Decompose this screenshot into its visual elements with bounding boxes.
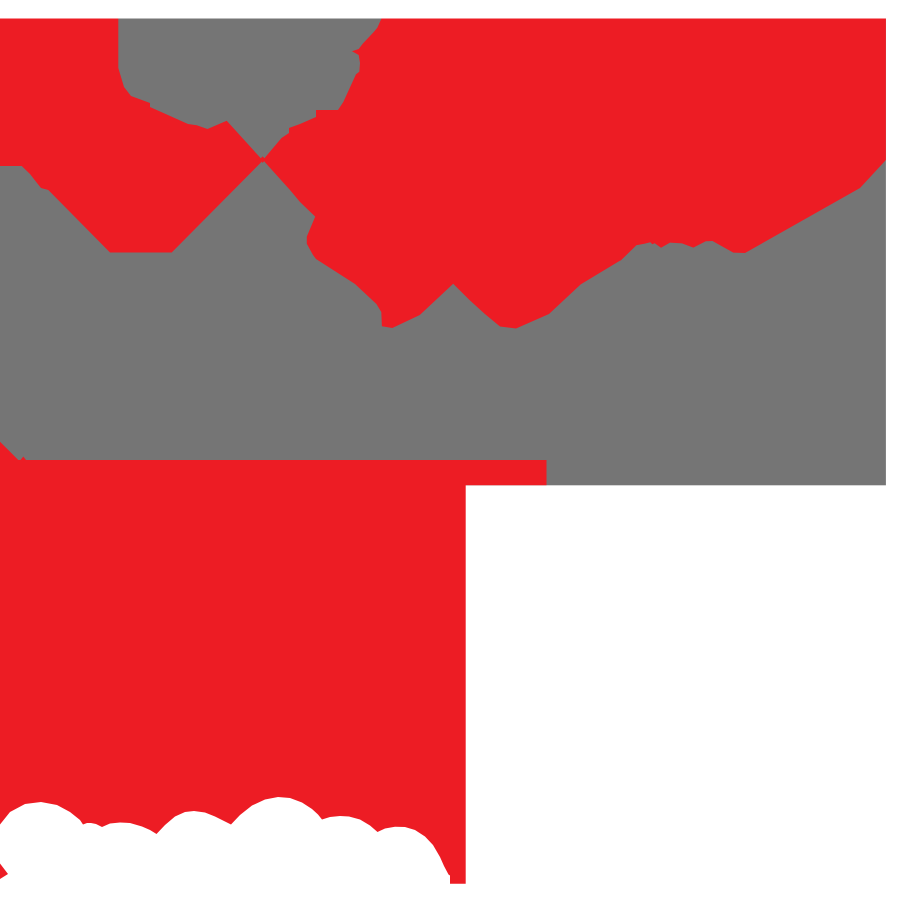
red bottom-left square with scalloped (letter-top) bottom edge — [0, 442, 547, 884]
red band 1 (top-left block + diagonal ribbon to crossing) — [0, 19, 262, 253]
tiny red spike on square top edge at left — [21, 457, 27, 461]
red right mass (large top-right block with jagged letter-like bottom) — [264, 19, 886, 329]
gray main field (single block; red shapes drawn on top) — [0, 19, 886, 486]
small red triangle at left edge near bottom (letter gap) — [0, 864, 8, 880]
tiny red diamond at the crossing point — [259, 156, 265, 162]
